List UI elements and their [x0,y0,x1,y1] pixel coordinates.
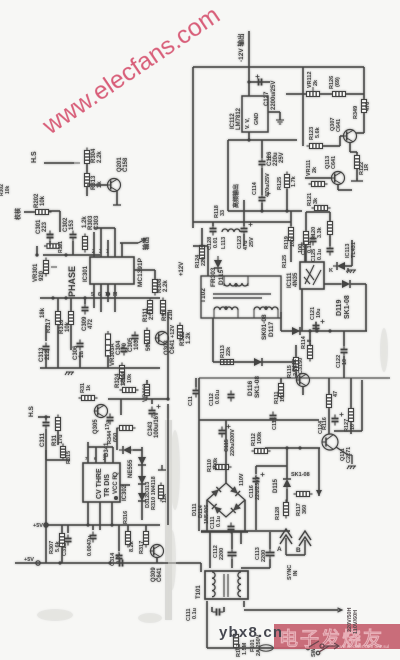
T101 coil right [238,572,241,597]
T102 primary coil [224,283,248,286]
ground IC112 [276,120,284,124]
potentiometer VR303 [106,331,111,359]
wire IC301 top bus [94,227,115,229]
fuse F101 [259,645,273,651]
potentiometer VR111 [309,182,328,187]
scan noise blobs [37,328,388,623]
resistor R349 [362,97,367,116]
wire D341 right [133,449,142,451]
pin dot IC302 [114,496,118,500]
wire top h [193,66,249,68]
wire C126-C114 [261,168,263,195]
wire diode chain [141,447,143,520]
wire IC301 pin4 up [114,228,116,257]
optocoupler internals [304,265,321,285]
transistor Q303 [155,332,169,345]
wire IC301 right [134,269,155,271]
resistor R113 [218,360,237,365]
transformer T101 outline [205,571,248,599]
transistor Q307 [343,130,357,143]
capacitor C114 [259,192,271,205]
optocoupler IC111 body [300,262,324,289]
capacitor C115 [219,425,231,438]
wire gnd stem [279,112,281,120]
resistor R344 [117,426,136,431]
wire 555 top bus [88,446,113,448]
transistor Q113 [331,172,345,185]
diode D116 [250,358,266,366]
potentiometer VR301 [44,258,49,277]
wire HS2 bottom [46,459,70,461]
resistor R324 [120,363,125,382]
wire R308 up [154,270,156,279]
wire to T101 [200,563,202,572]
wire R124 up [201,228,203,246]
capacitor C127 [255,75,266,86]
wire y610 [244,609,338,611]
capacitor C301 dup [47,231,54,242]
wire right corner down [363,67,365,100]
wire to output arrow [120,242,138,244]
capacitor C312 [65,535,72,546]
wire T102 top left [207,246,209,276]
transistor Q309 [150,545,164,558]
terminal +5V [44,523,48,527]
wire right rail down [365,284,367,331]
capacitor C128 [210,225,217,236]
wire mid bus 2 [40,367,160,369]
wire bridge top feed [225,430,227,483]
resistor R121 [312,206,331,211]
timer IC302 body [83,463,120,502]
wire IC111 down [301,289,303,331]
wire D119 out [351,283,366,285]
resistor R202 [33,210,52,215]
wire bridge bottom [201,530,290,532]
capacitor C306 [77,340,84,351]
capacitor C126 [259,156,271,169]
resistor R128 [284,500,289,519]
wire top right bus [249,66,364,68]
wire 555 pin up3 [104,454,106,463]
capacitor C111 [213,609,224,616]
T102 core [213,294,271,298]
capacitor C124 [332,413,344,426]
wire D117 link [281,330,340,332]
op-amp IC301 body [90,257,134,284]
wire R113-D116 row [213,361,296,363]
capacitor C315 [90,532,97,543]
bridge rectifier D111-D114 outline [207,483,245,517]
transistor Q305 [94,405,108,418]
wire VR112 up [302,67,304,94]
wire 555 right stub [120,484,130,486]
wire R316 up [70,298,72,311]
T102 secondary coil 2 [254,307,278,310]
terminal V- [36,561,40,565]
wire R120 up [329,212,331,221]
wire R202 down [59,211,61,232]
diode D313 [138,472,146,488]
wire IC112 gnd lead [268,111,280,113]
transistor Q201 [107,179,121,192]
wire HS2 lead [38,416,50,418]
wire 555 pin dn2 [99,502,101,530]
resistor R126 [330,92,349,97]
AC arrow 1 [332,608,342,612]
wire x319 rail [318,448,320,496]
wire below IC112 [228,139,297,141]
resistor R120 [328,219,333,238]
T102 secondary coil 1 [214,307,238,310]
wire mid bus 1 [40,297,160,299]
resistor R127 [349,406,354,425]
capacitor C122 [341,346,348,357]
wire Q113 emitter dn [337,184,339,190]
wire R344 left dn [116,428,118,450]
arrow tip x319 [316,490,322,496]
wire Q113 base [305,177,331,179]
resistor R313b [79,396,98,401]
inductor L113 [222,229,240,232]
capacitor C123 [241,223,253,236]
capacitor C304 [121,345,128,356]
wire x168 rail low [167,404,169,525]
wire cluster bottom [43,254,100,256]
resistor R315 [56,415,61,434]
ground TL431 [347,270,356,273]
T101 coil left [212,572,215,597]
wire D115 col up [286,448,288,479]
wire jiaohe lead [24,211,36,213]
wire T101 right dn [243,601,245,607]
capacitor C118 [270,412,277,423]
capacitor C317 [107,414,114,425]
output arrow [138,239,146,243]
resistor R119b [304,229,309,248]
ground mid [65,372,74,375]
wire Q309 emitter [156,558,158,563]
SYNC arrow B [299,531,311,555]
capacitor C112b [228,549,237,560]
resistor R115 [294,355,299,374]
resistor R317b [144,529,149,548]
resistor R114 [308,343,313,362]
diode D119 [338,280,354,288]
wire y211 bus [228,210,302,212]
wire IC301 pin8 down [114,284,116,312]
wire IC301 pin1 up [107,240,109,257]
capacitor C113 [266,549,275,560]
wire +12V rail [167,312,169,399]
wire Q111 box right [361,380,363,431]
capacitor C111b [228,523,235,534]
resistor R320 [61,444,66,461]
wire 555 pin dn3 [111,502,113,525]
potentiometer VR112 [304,92,323,97]
resistor R110 [213,465,232,470]
transistor Q112 [296,374,310,387]
diode D115 [283,475,291,491]
resistor R316 [69,309,74,328]
wire left of C114 [227,140,229,211]
diode D312 [138,453,146,469]
diode D117 [288,327,304,335]
resistor R303 [83,234,88,253]
wire Q201 emitter down [116,191,118,205]
wire Q307 base [340,135,344,137]
wire C127 link [249,81,270,83]
wire sync bottom [286,554,305,556]
resistor R307 [60,531,65,550]
wire right section left rail [192,67,194,228]
wire IC301 pin7 down [107,284,109,302]
wire bottom bus [207,647,306,649]
wire y420 [199,419,248,421]
terminal Q201 emitter [113,204,121,206]
resistor R304 [85,148,90,167]
wire VR112 to R123 [302,94,304,146]
transistor Q111 [322,434,338,450]
wire R202 right [49,210,60,212]
capacitor C313 [43,343,50,354]
bridge diode D113 [211,487,221,497]
wire 555 pin dn1 [87,502,89,525]
resistor R119 [289,225,294,244]
wire IC301 pin out [121,243,123,257]
wire R317 up [57,298,59,311]
thermistor R102 [234,632,239,651]
resistor R318 [145,328,150,347]
resistor R312 [178,323,183,342]
wire IC301 pin6 down [100,284,102,312]
wire R126 right [346,93,364,95]
capacitor C309 [82,304,89,315]
wire IC112 out [248,132,250,140]
capacitor C125 [310,235,317,246]
wire R123 right [322,145,340,147]
shunt reference IC113 [333,262,349,270]
capacitor C318 [116,560,127,567]
wire D115 col dn [286,489,288,502]
wire snubber top [193,221,244,223]
resistor R319 [161,298,166,317]
wire C313 link [45,325,47,341]
wire bottom-left long [15,562,201,564]
wire Q201 base [87,184,107,186]
resistor R123 [307,144,326,149]
wire T101 left dn [206,601,208,648]
wire R349 dn [363,112,365,133]
wire C123 up [243,200,245,222]
SYNC arrow A [280,529,292,555]
capacitor C117 [193,387,200,398]
capacitor C302 [70,231,77,242]
wire Q112 emitter [302,387,304,395]
bridge diode D114 [212,504,222,514]
wire Q305 row bus [108,398,168,400]
diode D314 [138,489,146,505]
switch SW101 [306,646,310,650]
wire into T101 left [209,532,211,568]
wire H.S lead [44,162,74,164]
resistor R116 [327,392,332,411]
capacitor C314 [116,552,123,563]
wire to D119 [324,283,341,285]
resistor R317 [56,309,61,328]
wire bus y532 [201,531,248,533]
bridge diode D112 [231,503,241,513]
wire Q111 emitter to ground [336,447,352,464]
resistor R111 [279,381,284,400]
junction T102 sec2 tap [264,306,268,310]
junction T102 sec1 tap [224,306,228,310]
wire R119 up [290,222,292,226]
capacitor C311 [43,419,50,430]
transformer T102 outline [201,276,281,318]
wire -12V stem [248,31,250,96]
wire left rail [45,450,47,563]
capacitor C301 [47,231,54,242]
overdrawn AC arrow on red block [309,641,339,652]
wire into T101 right [240,532,242,544]
resistor R122 [355,153,360,172]
wire y448 bus [265,447,320,449]
wire VR112-R126 [320,93,332,95]
scan streak artifact [165,420,172,620]
resistor R323 [159,483,164,502]
wire left rail low [198,378,200,531]
resistor R313 [85,171,90,190]
capacitor C121 [313,320,325,333]
wire 555 pin up2 [95,447,97,463]
capacitor C116 [253,473,265,486]
resistor R311 [148,298,153,317]
resistor R112 [252,449,271,454]
wire 555 lower bus [46,524,160,526]
resistor R314 [120,388,139,393]
junction T102 primary tap [234,283,238,287]
resistor R125 [285,172,290,191]
wire C309 up [84,298,86,304]
wire bus y331 right [340,330,367,332]
capacitor C305 [132,332,139,343]
resistor R117 [294,492,313,497]
diode D341 [119,446,135,454]
wire IC301 pin3 up [100,228,102,257]
wire Q307 collector [356,132,364,134]
wire Q307 emitter [349,142,351,152]
potentiometer VR302 [145,382,150,399]
capacitor tee near R323 [158,465,166,470]
capacitor C343 [149,405,161,418]
wire IC301 pin5 down [93,284,95,308]
resistor R316b [126,529,131,548]
wire long bus y378 [199,377,390,379]
diode D115b FR303 [214,256,222,272]
T101 core [224,574,228,597]
ground Q111 [347,466,356,469]
resistor R308 [153,277,158,296]
ground R122 [351,178,363,181]
wire D115 link [256,465,287,467]
wire IC301 pin2 up [93,232,95,257]
regulator IC112 body [242,96,268,132]
wire 555 pin up1 [87,442,89,463]
capacitor C125b [327,245,334,256]
wire 555 pin up4 [112,447,114,463]
wire bus y94 left [286,93,307,95]
resistor R301 [44,244,62,249]
capacitor C112 [228,391,235,402]
resistor R124 [200,243,205,262]
wire R304 branch [86,150,88,196]
junction below IC301 [106,292,110,296]
bridge diode D111 [230,486,240,496]
red watermark block bottom right [274,624,400,650]
